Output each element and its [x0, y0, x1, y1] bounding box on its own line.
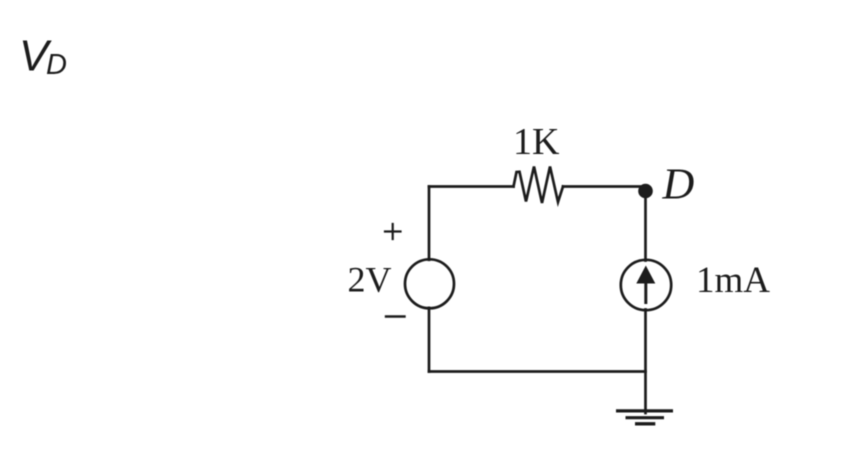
svg-text:D: D [662, 160, 695, 209]
wire left vertical lower [428, 308, 431, 372]
minus sign [386, 315, 405, 317]
current source arrow [636, 266, 655, 305]
wire right vertical lower [644, 310, 647, 414]
wire bottom horizontal [429, 370, 646, 373]
wire left vertical upper [428, 187, 431, 260]
svg-text:1mA: 1mA [696, 260, 770, 301]
svg-text:2V: 2V [348, 260, 392, 300]
node Vd label [19, 32, 67, 82]
wire top-right horizontal [563, 185, 646, 188]
svg-text:1K: 1K [513, 121, 560, 163]
ground [616, 411, 673, 424]
current source I1 circle [621, 260, 671, 310]
plus sign [385, 224, 401, 239]
node D junction dot [638, 184, 653, 199]
wire right vertical upper [644, 190, 647, 261]
voltage source V1 2V circle [405, 259, 454, 308]
wire top-left horizontal [429, 185, 514, 188]
svg-text:D: D [46, 49, 67, 81]
resistor R 1K [514, 167, 564, 204]
